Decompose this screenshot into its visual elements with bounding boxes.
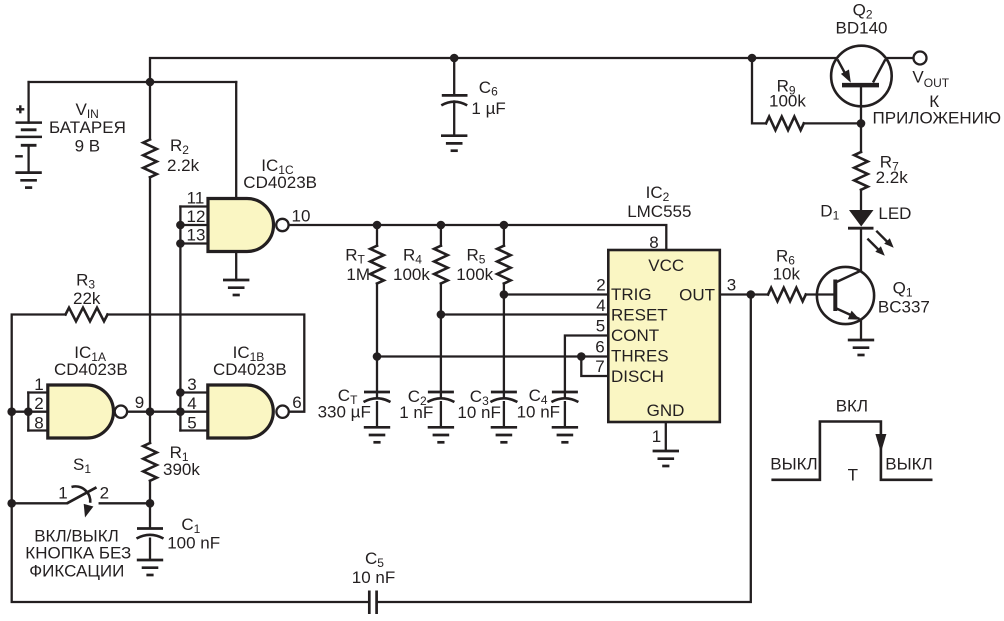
junction IC1B pin3 <box>176 388 185 397</box>
capacitor C3 <box>490 392 517 427</box>
timing falling edge arrow <box>875 434 886 453</box>
LED D1 <box>848 210 874 228</box>
junction RT bottom THRES <box>373 352 382 361</box>
svg-text:1: 1 <box>58 483 67 502</box>
svg-text:RESET: RESET <box>611 306 668 325</box>
svg-text:4: 4 <box>596 296 605 315</box>
NAND gate IC1A <box>48 385 114 438</box>
NAND gate IC1B <box>208 385 273 438</box>
svg-text:BD140: BD140 <box>836 19 888 38</box>
switch S1 <box>67 486 97 517</box>
svg-text:1: 1 <box>34 375 43 394</box>
wire CONT to C4 <box>565 336 608 399</box>
junction R5 top <box>500 221 509 230</box>
resistor R7 <box>854 152 868 190</box>
wire IC1A pin8 stub <box>28 429 48 431</box>
svg-text:7: 7 <box>595 357 604 376</box>
IC1B output bubble <box>276 406 288 418</box>
IC1C output bubble <box>276 219 288 231</box>
svg-text:BC337: BC337 <box>878 298 930 317</box>
ground IC1C <box>223 280 249 295</box>
wire TRIG <box>504 293 608 295</box>
svg-text:100 nF: 100 nF <box>167 534 220 553</box>
svg-text:10 nF: 10 nF <box>517 403 560 422</box>
junction IC1C pin12 <box>176 221 185 230</box>
junction C6 on top rail <box>450 54 459 63</box>
svg-text:9: 9 <box>135 393 144 412</box>
svg-text:LED: LED <box>878 204 911 223</box>
wire IC1C pin13 stub <box>180 242 208 244</box>
wire IC1C ground stem <box>235 252 237 281</box>
svg-text:330 µF: 330 µF <box>318 403 371 422</box>
svg-text:GND: GND <box>647 401 685 420</box>
wire IC1A pin1 stub <box>28 391 48 393</box>
wire R6 to Q1 base <box>806 293 834 295</box>
IC2 555 box <box>608 250 720 422</box>
wire THRES <box>377 355 608 357</box>
wire IC1A output to IC1B inputs <box>127 411 208 413</box>
ground CT <box>364 427 390 442</box>
wire 555 gnd stem <box>665 422 667 451</box>
wire Q2 collector to VOUT <box>887 57 914 59</box>
resistor R2 <box>143 140 157 178</box>
svg-text:10: 10 <box>292 207 311 226</box>
svg-text:2: 2 <box>34 394 43 413</box>
junction RT top <box>373 221 382 230</box>
wire gate input bus <box>179 207 181 431</box>
capacitor CT <box>364 392 391 427</box>
ground Q1 <box>848 340 874 355</box>
wire RT column <box>376 225 378 398</box>
wire IC1B pin5 stub <box>180 429 207 431</box>
wire R4 column <box>440 225 442 398</box>
wire R9 drop <box>752 58 766 123</box>
transistor Q1 <box>817 267 874 324</box>
resistor R4 <box>434 246 448 284</box>
wire S1 left <box>12 502 67 504</box>
wire IC1C pin11 stub <box>180 205 208 207</box>
transistor Q2 <box>831 46 892 107</box>
svg-text:1: 1 <box>652 427 661 446</box>
wire IC1B pin3 stub <box>180 391 207 393</box>
junction node 9 R2 R1 <box>146 407 155 416</box>
resistor R3 <box>66 308 108 322</box>
resistor RT <box>370 246 384 284</box>
junction IC1A input bus pin2 <box>24 407 33 416</box>
svg-text:CD4023B: CD4023B <box>54 360 128 379</box>
ground C1 <box>137 560 163 575</box>
junction R9 on top rail <box>748 54 757 63</box>
junction Q2 base R7 <box>857 119 866 128</box>
wire OUT to R6 <box>720 293 768 295</box>
svg-text:ВЫКЛ: ВЫКЛ <box>885 455 932 474</box>
junction S1 C1 R1 <box>146 499 155 508</box>
svg-text:1 µF: 1 µF <box>471 99 505 118</box>
wire R2 R1 bus <box>149 82 151 503</box>
LED light arrows <box>867 231 893 256</box>
resistor R5 <box>497 246 511 284</box>
svg-text:11: 11 <box>187 188 205 207</box>
svg-text:2: 2 <box>596 276 605 295</box>
svg-text:ВКЛ: ВКЛ <box>836 397 868 416</box>
wire C6 to ground <box>453 102 455 136</box>
wire Q1 emitter to ground <box>860 320 862 341</box>
junction battery rail to top rail <box>146 78 155 87</box>
capacitor C1 <box>137 529 164 561</box>
svg-text:1 nF: 1 nF <box>399 403 433 422</box>
ground C2 <box>428 427 454 442</box>
svg-text:10 nF: 10 nF <box>457 403 500 422</box>
svg-text:VCC: VCC <box>648 256 684 275</box>
svg-text:2: 2 <box>100 483 109 502</box>
svg-text:100k: 100k <box>769 92 806 111</box>
svg-text:3: 3 <box>187 375 196 394</box>
svg-text:CONT: CONT <box>611 326 659 345</box>
wire C6 stem <box>453 58 455 94</box>
wire battery to IC1C VCC branch <box>29 81 237 83</box>
ground C6 <box>441 136 467 151</box>
svg-text:4: 4 <box>187 394 196 413</box>
junction THRES DISCH tie <box>577 352 586 361</box>
svg-text:THRES: THRES <box>611 347 669 366</box>
svg-text:CD4023B: CD4023B <box>213 360 287 379</box>
wire IC1A input mini bus <box>27 393 29 431</box>
wire C1 stem <box>149 503 151 527</box>
svg-text:8: 8 <box>34 413 43 432</box>
svg-text:LMC555: LMC555 <box>627 202 691 221</box>
battery V_IN <box>15 105 42 172</box>
svg-text:TRIG: TRIG <box>611 285 652 304</box>
capacitor C6 <box>441 95 467 105</box>
resistor R6 <box>768 288 806 302</box>
svg-text:8: 8 <box>649 233 658 252</box>
timing diagram pulse <box>771 422 932 480</box>
wire LED to Q1 collector <box>860 230 862 272</box>
svg-text:CD4023B: CD4023B <box>243 173 317 192</box>
svg-text:КНОПКА БЕЗ: КНОПКА БЕЗ <box>25 544 131 563</box>
wire R9 to Q2 base <box>804 122 861 124</box>
svg-text:6: 6 <box>595 338 604 357</box>
wire R5 column <box>503 225 505 398</box>
resistor R1 <box>143 443 157 481</box>
svg-text:6: 6 <box>292 393 301 412</box>
capacitor C2 <box>427 392 454 427</box>
svg-text:22k: 22k <box>73 289 101 308</box>
wire bottom left run <box>12 503 368 602</box>
svg-text:ВЫКЛ: ВЫКЛ <box>770 455 817 474</box>
terminal VOUT <box>914 52 927 65</box>
svg-text:5: 5 <box>187 413 196 432</box>
wire battery positive lead <box>27 82 29 123</box>
svg-text:OUT: OUT <box>679 286 715 305</box>
svg-text:DISCH: DISCH <box>611 367 664 386</box>
wire IC1A pin2 feed <box>12 411 48 413</box>
junction IC1C pin13 <box>176 239 185 248</box>
svg-text:3: 3 <box>727 276 736 295</box>
junction IC1B pin4 <box>176 407 185 416</box>
IC1A output bubble <box>115 406 127 418</box>
ground battery <box>15 173 41 188</box>
ground C4 <box>552 427 578 442</box>
svg-text:10k: 10k <box>773 265 801 284</box>
junction left bus S1 <box>7 499 16 508</box>
ground 555 <box>653 451 679 466</box>
svg-text:2.2k: 2.2k <box>876 168 909 187</box>
wire IC1C pin12 stub <box>180 224 208 226</box>
wire supply top rail <box>150 58 835 82</box>
svg-text:БАТАРЕЯ: БАТАРЕЯ <box>49 118 126 137</box>
svg-text:13: 13 <box>187 226 206 245</box>
svg-text:1M: 1M <box>346 265 370 284</box>
wire Q2 base stem <box>860 87 862 123</box>
wire S1 right to C1 <box>100 502 150 504</box>
svg-text:12: 12 <box>187 207 206 226</box>
svg-text:ФИКСАЦИИ: ФИКСАЦИИ <box>29 562 124 581</box>
svg-text:ПРИЛОЖЕНИЮ: ПРИЛОЖЕНИЮ <box>873 109 1002 128</box>
junction OUT node <box>747 290 756 299</box>
NAND gate IC1C <box>208 199 274 252</box>
junction R5 bottom TRIG <box>500 290 509 299</box>
svg-text:9 В: 9 В <box>75 137 101 156</box>
wire IC1C VCC drop <box>235 82 237 199</box>
junction left bus pin2 <box>7 407 16 416</box>
capacitor C5 <box>369 591 376 615</box>
svg-text:10 nF: 10 nF <box>352 568 395 587</box>
svg-text:5: 5 <box>596 317 605 336</box>
svg-text:100k: 100k <box>393 265 430 284</box>
wire IC1C output to 555 VCC <box>288 225 666 250</box>
ground C3 <box>491 427 517 442</box>
wire R3 to IC1B output <box>108 315 305 412</box>
wire DISCH jog <box>581 357 608 377</box>
svg-text:390k: 390k <box>163 460 200 479</box>
resistor R9 <box>766 117 804 131</box>
junction R4 top <box>437 221 446 230</box>
wire R7 to LED <box>860 190 862 210</box>
capacitor C4 <box>551 392 578 427</box>
svg-text:T: T <box>848 466 858 485</box>
wire RESET <box>441 313 608 315</box>
wire OUT down to bottom <box>378 295 751 603</box>
svg-text:100k: 100k <box>456 265 493 284</box>
wire R7 top lead <box>860 123 862 152</box>
junction R4 bottom RESET <box>437 310 446 319</box>
wire left bus <box>12 315 66 504</box>
svg-text:2.2k: 2.2k <box>167 156 200 175</box>
